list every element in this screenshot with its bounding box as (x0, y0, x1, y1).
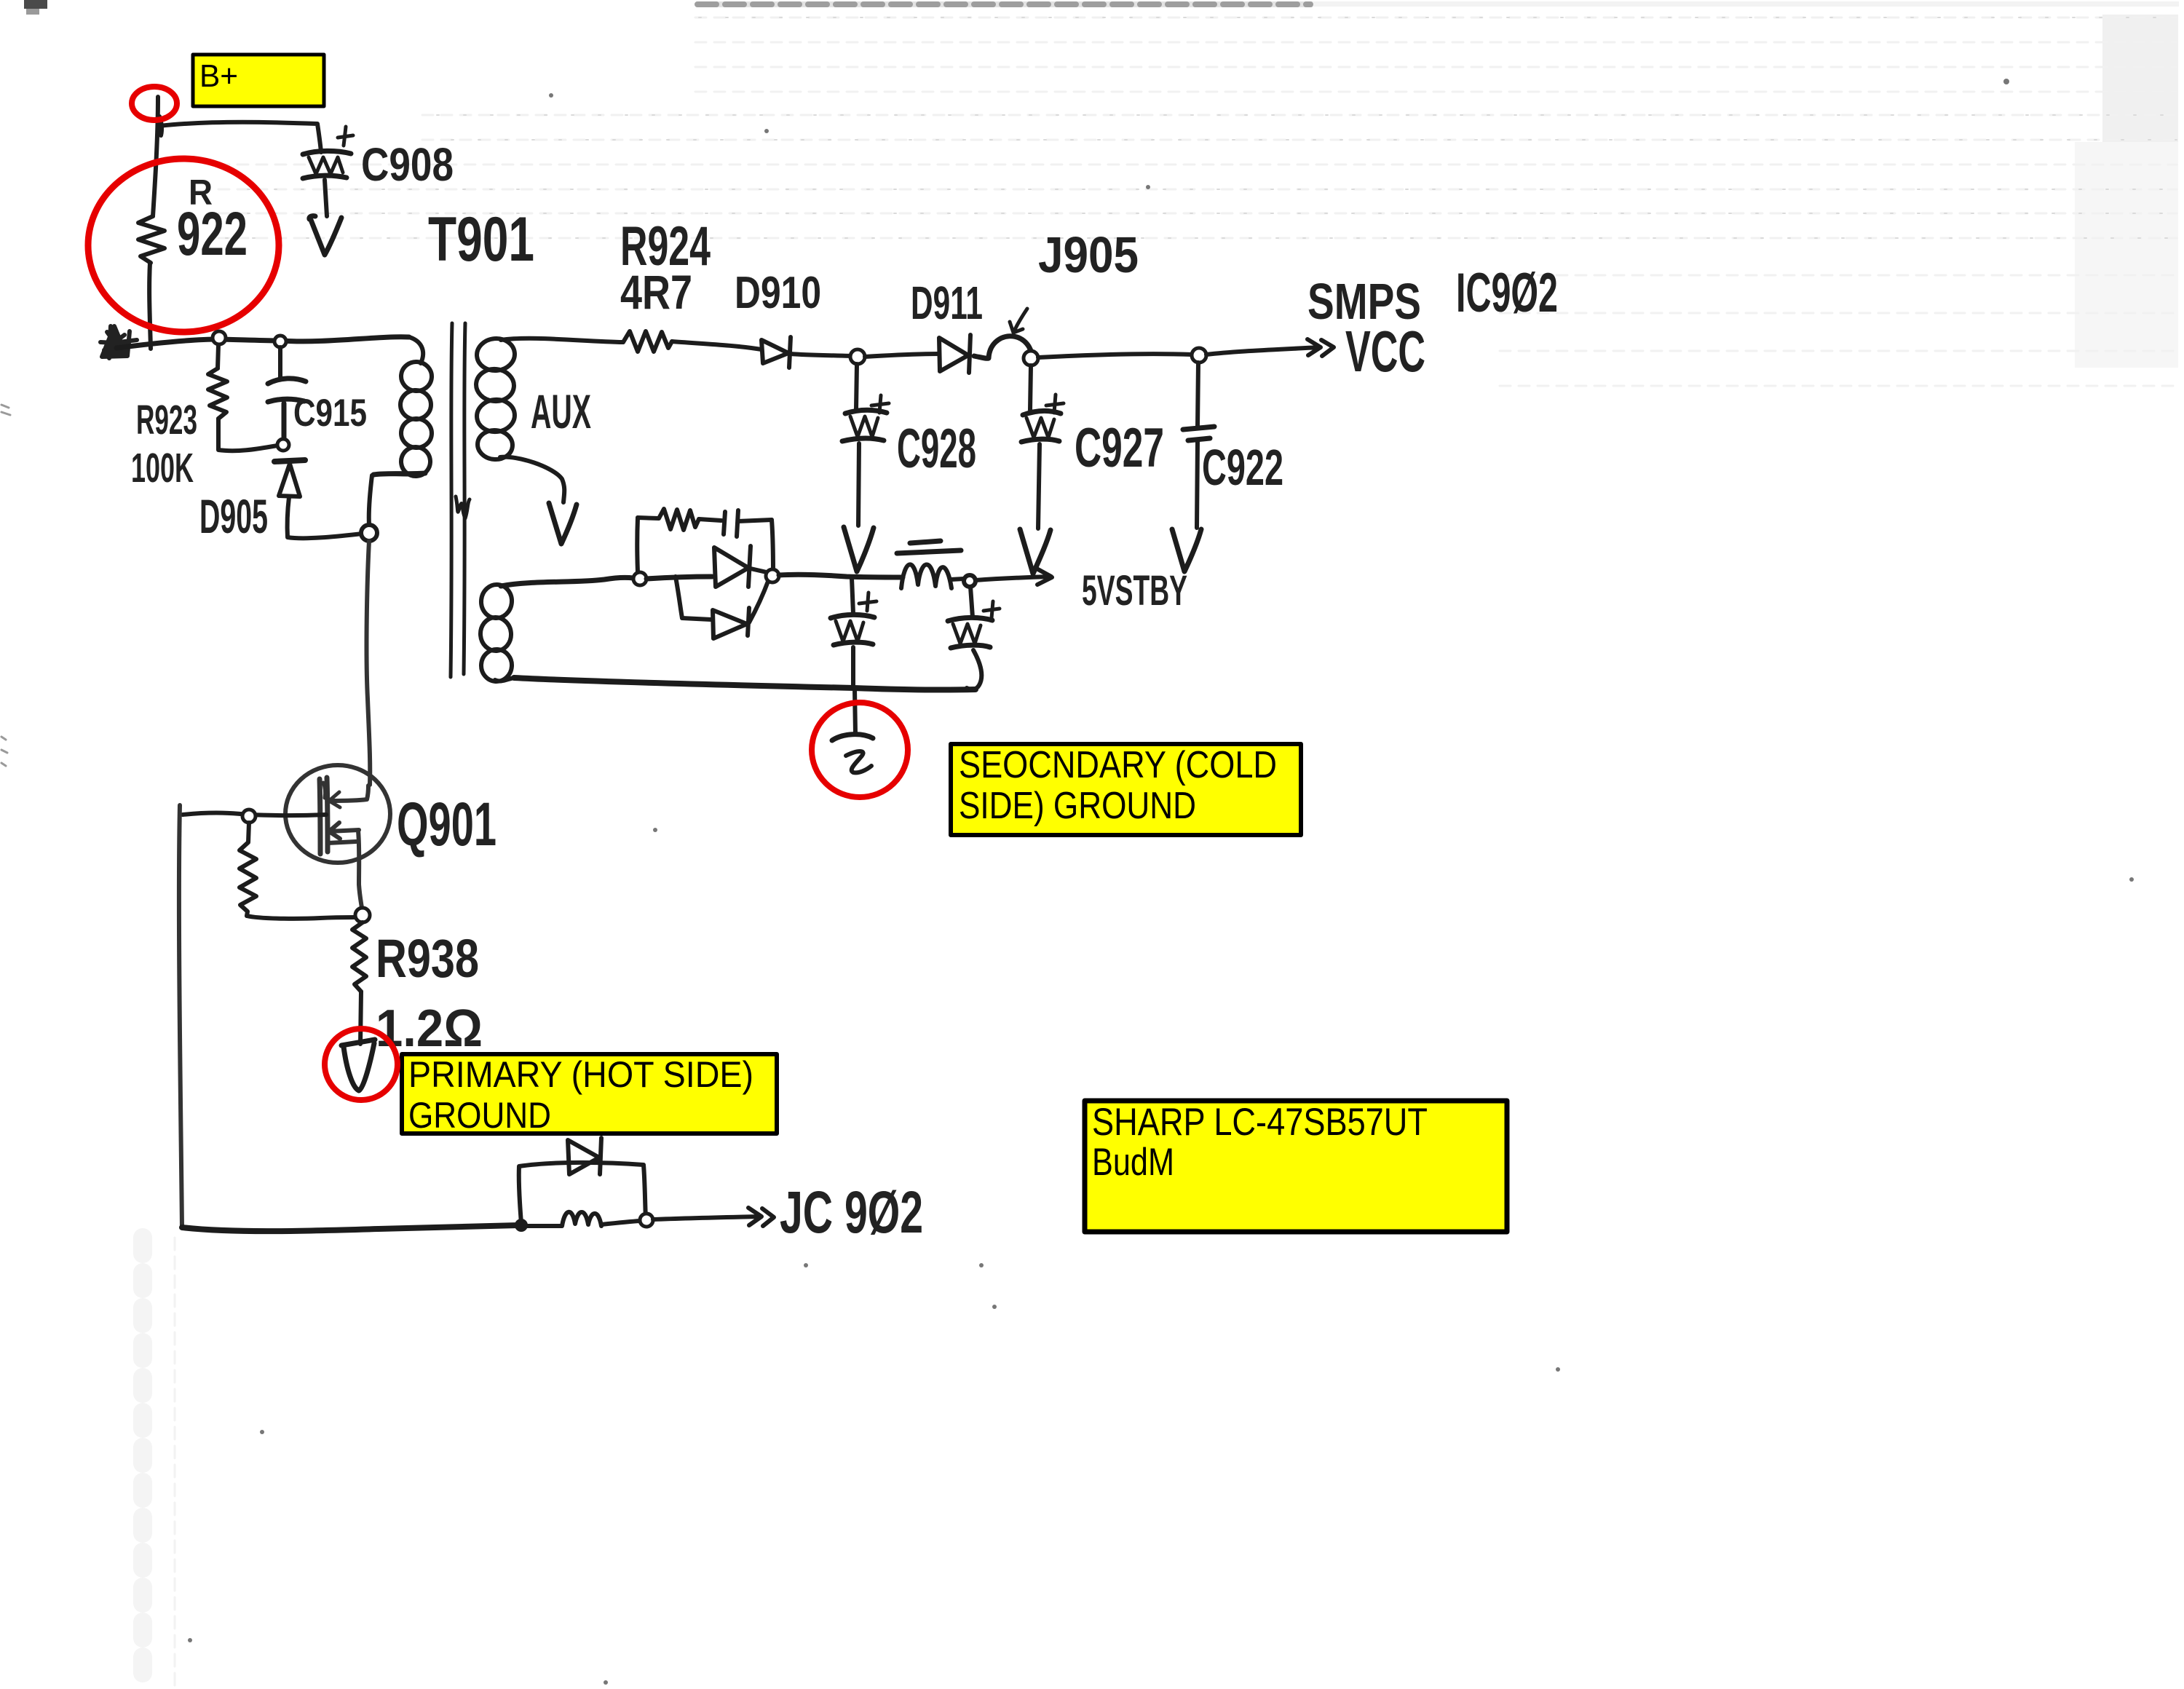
svg-text:C915: C915 (293, 392, 367, 435)
node C915 bottom (277, 439, 289, 451)
wire R938 to ground (360, 992, 361, 1044)
svg-text:PRIMARY (HOT SIDE): PRIMARY (HOT SIDE) (408, 1054, 753, 1095)
wire node to R923 (218, 345, 218, 368)
red marker circle at B+ node (132, 87, 177, 120)
svg-text:T901: T901 (428, 205, 534, 274)
node secondary winding top (633, 572, 646, 585)
transistor Q901 body circle (285, 765, 390, 863)
svg-text:4R7: 4R7 (620, 265, 692, 319)
transformer AUX winding (475, 337, 623, 502)
svg-text:J905: J905 (1038, 226, 1139, 283)
wire R923 bottom to C915 bottom node (218, 419, 277, 451)
ground below C928 (844, 527, 874, 571)
wire node down to diode D2 (676, 577, 682, 618)
node winding bottom / drain wire (361, 525, 377, 541)
capacitor C927 (1021, 365, 1064, 529)
node junction C922 (1192, 348, 1206, 363)
arrow from J905 label (1010, 309, 1027, 333)
diode bottom snubber (568, 1138, 601, 1174)
resistor gate pulldown (240, 823, 256, 916)
wire gate resistor to source node (247, 916, 355, 919)
node junction C928 (850, 349, 865, 364)
wire B+ node vertical to resistor R922 (153, 97, 158, 216)
node gate (242, 810, 256, 823)
wire R924 to D910 (672, 341, 761, 349)
diode D910 (761, 337, 791, 368)
wire to C junction (779, 574, 903, 577)
wire gate horizontal (183, 813, 326, 816)
ground below C927 (1020, 529, 1051, 574)
wire D910 to node (791, 354, 850, 356)
wire winding tail to drain node (373, 473, 425, 475)
svg-text:5VSTBY: 5VSTBY (1082, 567, 1187, 614)
capacitor C915 (268, 379, 306, 439)
red marker ellipse around R922 (88, 159, 279, 332)
diode D2 (5VSTBY lower) (682, 580, 769, 638)
wire main rail (116, 337, 409, 348)
svg-text:922: 922 (177, 199, 248, 268)
svg-text:R923: R923 (136, 397, 197, 443)
wire drain from transformer node down to Q901 (367, 541, 371, 785)
svg-text:C922: C922 (1202, 439, 1283, 496)
capacitor snubber (699, 510, 772, 537)
resistor R923 (208, 368, 227, 419)
svg-text:IC9Ø2: IC9Ø2 (1456, 262, 1558, 324)
svg-text:R938: R938 (376, 928, 479, 989)
node junction bottom left (filled) (515, 1219, 528, 1232)
svg-text:SEOCNDARY (COLD: SEOCNDARY (COLD (959, 744, 1277, 786)
svg-text:D911: D911 (911, 277, 983, 329)
capacitor C908 (303, 127, 353, 216)
resistor R924 (623, 331, 672, 352)
transformer core (451, 323, 470, 677)
node right of inductor (640, 1214, 653, 1227)
wire snubber right side down (772, 520, 773, 572)
svg-text:SHARP LC-47SB57UT: SHARP LC-47SB57UT (1092, 1101, 1428, 1144)
wire bottom rail (182, 1225, 518, 1231)
svg-text:AUX: AUX (531, 384, 591, 438)
capacitor 5VSTBY right (electrolytic) (948, 587, 1000, 689)
transformer T901 primary winding (369, 337, 433, 525)
node on rail for R923 (213, 331, 226, 344)
svg-text:VCC: VCC (1345, 319, 1425, 384)
red marker circle around secondary ground (812, 703, 908, 797)
wire node up to snubber branch (635, 518, 640, 572)
diode D911 (939, 335, 970, 373)
wire 5VSTBY arrow (976, 569, 1052, 585)
wire R922 to main rail (149, 263, 151, 349)
svg-text:C908: C908 (361, 138, 454, 191)
svg-text:C927: C927 (1075, 417, 1164, 479)
node A+ scribble on rail left end (100, 326, 137, 358)
capacitor 5VSTBY left (electrolytic) (831, 578, 877, 687)
inductor bottom (521, 1212, 640, 1226)
transformer secondary winding (5VSTBY) (479, 577, 633, 682)
jumper J905 arc (974, 336, 1032, 359)
svg-text:GROUND: GROUND (408, 1095, 551, 1136)
resistor R938 (352, 922, 366, 992)
wire node to C915 (278, 347, 282, 379)
svg-text:Q901: Q901 (397, 790, 496, 858)
node 5VSTBY output (964, 575, 976, 587)
ground secondary (cold side) (832, 735, 873, 773)
ground primary (hot side) (341, 1040, 375, 1091)
svg-text:B+: B+ (199, 58, 238, 94)
resistor snubber (638, 509, 699, 530)
node B+ label box (193, 55, 324, 106)
wire secondary bottom rail (514, 678, 976, 690)
snubber loop around inductor (519, 1163, 646, 1223)
red marker circle around primary ground (325, 1029, 397, 1100)
node junction C927 (1024, 351, 1038, 365)
wire to IC902 arrow (653, 1208, 774, 1226)
ground below C908 (309, 216, 341, 255)
label box SHARP (1085, 1101, 1507, 1232)
wire D905 to winding-bottom node (288, 497, 363, 538)
svg-text:BudM: BudM (1092, 1141, 1174, 1184)
transistor Q901 internals (320, 778, 368, 908)
capacitor C922 (1183, 363, 1214, 528)
node source (355, 908, 370, 922)
wire ground stem (855, 689, 855, 734)
wire left rail vertical (179, 805, 182, 1227)
label box SECONDARY GROUND (951, 744, 1301, 835)
junction tick at B+ node (159, 116, 162, 135)
label box PRIMARY GROUND (402, 1054, 777, 1136)
svg-text:SIDE) GROUND: SIDE) GROUND (959, 785, 1196, 827)
svg-text:100K: 100K (131, 445, 194, 491)
svg-text:D905: D905 (199, 489, 268, 543)
wire node to D911 (865, 354, 939, 357)
ground below C922 (1172, 529, 1201, 571)
diode D1 (5VSTBY upper) (714, 546, 767, 587)
capacitor C928 (842, 364, 889, 526)
wire node to node C922 (1038, 354, 1192, 357)
wire node to VCC arrow (1206, 339, 1334, 356)
svg-text:D910: D910 (735, 268, 821, 318)
diode D905 (274, 460, 305, 497)
svg-text:C928: C928 (897, 418, 976, 480)
wire node to diode D1 (646, 577, 712, 579)
ferrite bead L (897, 541, 964, 588)
wire B+ node horizontal to C908 (159, 122, 321, 152)
resistor R922 (138, 216, 165, 263)
node on rail for C915 (274, 336, 286, 347)
svg-text:JC 9Ø2: JC 9Ø2 (780, 1179, 923, 1246)
ground below AUX (549, 503, 577, 544)
node diodes output (766, 569, 779, 582)
